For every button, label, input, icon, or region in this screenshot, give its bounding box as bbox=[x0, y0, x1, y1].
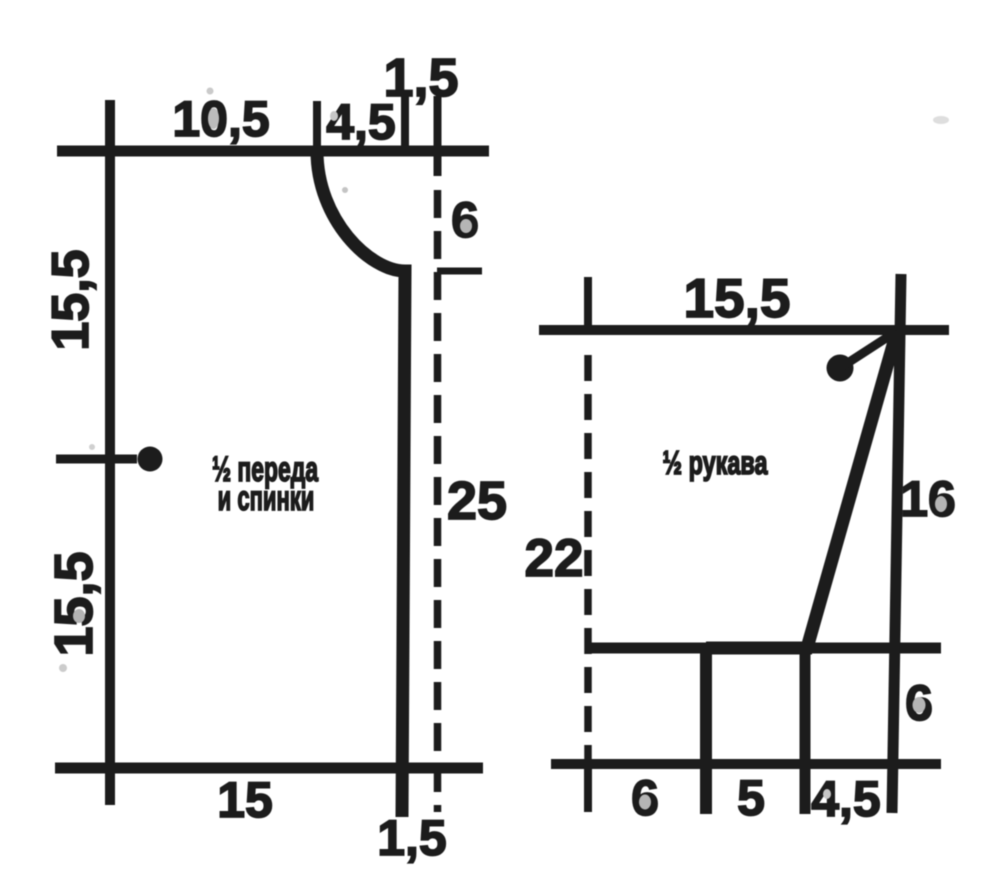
svg-text:15,5: 15,5 bbox=[683, 267, 790, 329]
svg-text:4,5: 4,5 bbox=[811, 771, 881, 827]
svg-text:5: 5 bbox=[737, 770, 765, 826]
sleeve bottom edge dimension line bbox=[551, 759, 941, 769]
svg-text:и спинки: и спинки bbox=[218, 480, 315, 518]
gray counter of bottom 6 bbox=[639, 795, 651, 810]
sleeve underarm horizontal line bbox=[590, 643, 941, 654]
sleeve: top edge dimension line bbox=[539, 325, 949, 335]
svg-text:15: 15 bbox=[217, 772, 273, 828]
front/back piece: left fold edge vertical line bbox=[105, 100, 115, 805]
sleeve: right edge vertical line bbox=[892, 274, 901, 813]
mid tick on left edge bbox=[56, 455, 137, 464]
svg-text:15,5: 15,5 bbox=[44, 551, 104, 656]
sleeve cuff top pattern edge (thicker overlay) bbox=[706, 642, 812, 655]
tick for 6 depth measurement bbox=[437, 268, 482, 275]
gray counter of right 6 bbox=[913, 697, 926, 713]
tick at neck edge (4,5 / 1,5 boundary) bbox=[401, 96, 409, 151]
svg-text:½ рукава: ½ рукава bbox=[663, 445, 769, 482]
svg-text:1,5: 1,5 bbox=[377, 810, 447, 866]
tick between 10,5 and 4,5 bbox=[313, 101, 321, 151]
gray counter of 6 bbox=[460, 219, 472, 233]
marker dot on left edge bbox=[138, 447, 163, 472]
gray counter of 5 in lower 15,5 bbox=[73, 609, 85, 623]
svg-text:15,5: 15,5 bbox=[42, 249, 100, 350]
sleeve marker dot stroke to corner bbox=[843, 331, 897, 366]
svg-text:10,5: 10,5 bbox=[172, 91, 269, 147]
sleeve tick at diagonal base bbox=[800, 650, 811, 814]
sleeve underarm diagonal seam bbox=[807, 331, 897, 648]
svg-text:22: 22 bbox=[525, 529, 584, 588]
sleeve marker dot bbox=[827, 355, 854, 382]
front/back piece: top edge dimension line bbox=[57, 146, 489, 157]
front/back piece: bottom edge dimension line bbox=[55, 763, 483, 774]
svg-text:25: 25 bbox=[447, 471, 507, 531]
scan noise speck bbox=[59, 664, 67, 672]
seam allowance dashed line (front/back) bbox=[434, 190, 442, 812]
tick at seam dashed line top bbox=[434, 96, 442, 176]
sleeve: fold line tick above top edge bbox=[584, 277, 592, 334]
neckline curve and right edge of front/back piece bbox=[317, 151, 405, 817]
scan noise speck bbox=[342, 187, 348, 193]
svg-text:16: 16 bbox=[900, 471, 956, 527]
sleeve: fold dashed line bbox=[584, 355, 592, 765]
sleeve cuff step vertical line bbox=[700, 646, 712, 814]
gray counter of 6 in 16 bbox=[935, 496, 947, 512]
scan noise speck bbox=[89, 444, 95, 450]
scan noise speck bbox=[933, 116, 949, 124]
gray counter of 4 in bottom 4,5 bbox=[823, 789, 831, 799]
gray counter of 4 bbox=[330, 111, 338, 121]
gray counter of 0 bbox=[208, 108, 219, 129]
scan noise speck bbox=[207, 88, 214, 95]
svg-text:1,5: 1,5 bbox=[383, 48, 458, 108]
sleeve: fold line tick below bottom edge bbox=[584, 767, 592, 812]
